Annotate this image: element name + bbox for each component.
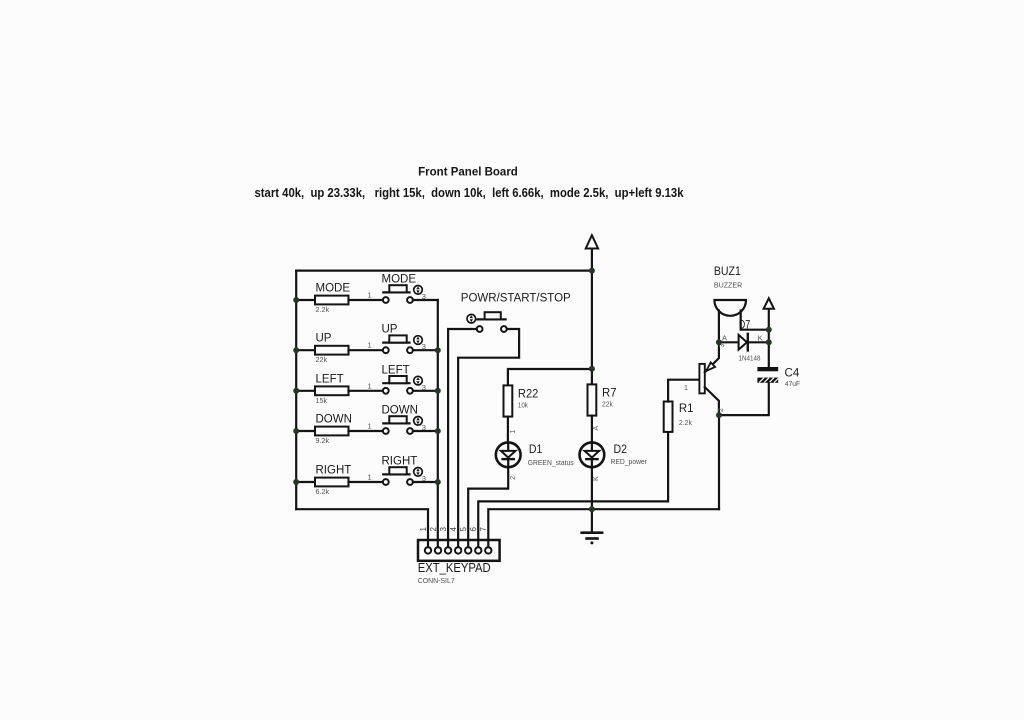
svg-text:2.2k: 2.2k (316, 305, 330, 314)
svg-text:1: 1 (419, 527, 428, 532)
svg-text:1: 1 (510, 430, 517, 434)
svg-text:9.2k: 9.2k (316, 436, 330, 445)
svg-text:R1: R1 (679, 401, 694, 415)
svg-text:A: A (593, 426, 600, 431)
junction node right rail LEFT (435, 388, 441, 394)
wire VCC vertical to R7 (591, 271, 593, 369)
pushbutton S_RIGHT (368, 456, 438, 485)
wire VCC branch to R22 (508, 369, 592, 385)
svg-text:3: 3 (439, 527, 448, 532)
resistor R_LEFT (296, 373, 383, 405)
resistor R_RIGHT (296, 465, 383, 497)
svg-text:D2: D2 (614, 442, 628, 456)
svg-text:R7: R7 (602, 385, 617, 399)
junction node collector/C4 (716, 412, 722, 418)
LED D2 (580, 442, 648, 467)
junction node buzzer/VCC2 (766, 327, 772, 333)
wire right button rail to connector pin 2 (437, 300, 439, 547)
svg-text:1: 1 (368, 291, 372, 300)
svg-text:R22: R22 (518, 386, 539, 400)
svg-text:A: A (722, 334, 727, 343)
resistor R7 (588, 369, 617, 416)
pushbutton S_MODE (368, 274, 438, 303)
resistor R1 (664, 401, 694, 432)
svg-text:GREEN_status: GREEN_status (528, 458, 574, 467)
wire buzzer left lead (718, 311, 720, 343)
svg-text:22k: 22k (602, 400, 613, 409)
svg-text:EXT_KEYPAD: EXT_KEYPAD (418, 561, 491, 575)
svg-text:DOWN: DOWN (382, 405, 418, 417)
svg-text:DOWN: DOWN (316, 414, 352, 426)
wire connector pin 6 to R1 (478, 432, 668, 547)
svg-text:22k: 22k (316, 355, 328, 364)
svg-text:RIGHT: RIGHT (316, 465, 352, 477)
junction node left rail LEFT (293, 388, 299, 394)
wire VCC top bus (296, 270, 592, 272)
pushbutton S_DOWN (368, 405, 438, 434)
svg-text:15k: 15k (316, 396, 328, 405)
pushbutton S_LEFT (368, 364, 438, 393)
wire left rail to connector pin 1 (296, 509, 428, 547)
junction node right rail RIGHT (435, 479, 441, 485)
buzzer BUZ1 (714, 264, 746, 316)
svg-text:D1: D1 (529, 442, 543, 456)
wire D2 to ground node (591, 467, 593, 509)
wire R7 to D2 (591, 416, 593, 443)
svg-text:5: 5 (459, 527, 468, 532)
svg-text:MODE: MODE (316, 283, 351, 295)
junction node R22/R7 (589, 366, 595, 372)
svg-text:1: 1 (368, 473, 372, 482)
svg-text:2: 2 (429, 527, 438, 532)
junction node VCC/top-bus (589, 268, 595, 274)
wire buzzer right lead (741, 311, 769, 330)
junction node left rail MODE (293, 297, 299, 303)
junction node right rail UP (435, 347, 441, 353)
wire left rail (295, 271, 297, 510)
svg-text:6: 6 (469, 527, 478, 532)
junction node GND (589, 506, 595, 512)
svg-text:BUZ1: BUZ1 (714, 264, 741, 278)
svg-text:1: 1 (684, 383, 688, 392)
LED D1 (496, 442, 574, 467)
svg-text:RED_power: RED_power (611, 457, 648, 466)
svg-text:2: 2 (510, 476, 517, 480)
svg-text:10k: 10k (518, 400, 528, 409)
junction node K/C4 (766, 339, 772, 345)
svg-text:1: 1 (368, 381, 372, 390)
svg-text:47uF: 47uF (785, 379, 801, 388)
svg-text:BUZZER: BUZZER (714, 280, 742, 289)
wire VCC2 down to C4 (768, 330, 770, 367)
wire R1 to transistor base (668, 380, 698, 402)
pushbutton POWR/START/STOP (461, 293, 571, 332)
junction node left rail UP (293, 347, 299, 353)
transistor Q1 (PNP) (699, 342, 719, 415)
wire POWR pin1 to connector pin 3 (448, 329, 477, 547)
junction node left rail RIGHT (293, 479, 299, 485)
svg-text:2: 2 (718, 408, 725, 412)
svg-text:1: 1 (368, 341, 372, 350)
resistor R_DOWN (296, 414, 383, 446)
supply symbol VCC (buzzer) (764, 298, 774, 329)
supply symbol VCC (main) (586, 235, 598, 270)
junction node left rail DOWN (293, 428, 299, 434)
wire ground bus pin7 to collector (488, 509, 719, 547)
diode D7 1N4148 (719, 318, 769, 363)
wire R22 to D1 (507, 417, 509, 443)
svg-text:start 40k, up 23.33k, right: start 40k, up 23.33k, right 15k, down 10… (255, 186, 685, 200)
svg-text:1: 1 (368, 422, 372, 431)
svg-text:K: K (593, 476, 600, 481)
svg-text:UP: UP (316, 333, 332, 345)
ground symbol GND (582, 509, 602, 544)
svg-text:K: K (758, 334, 763, 343)
junction node right rail DOWN (435, 428, 441, 434)
svg-text:LEFT: LEFT (382, 364, 410, 376)
svg-text:C4: C4 (785, 365, 800, 379)
svg-text:RIGHT: RIGHT (382, 456, 418, 468)
wire POWR pin3 to connector pin 4 (458, 329, 519, 547)
junction node A buzzer/emitter (716, 339, 722, 345)
svg-text:MODE: MODE (382, 274, 417, 286)
wire D1 to connector pin 5 (468, 467, 508, 547)
resistor R_UP (296, 333, 383, 365)
svg-text:7: 7 (479, 527, 488, 532)
connector EXT_KEYPAD CONN-SIL7 (418, 540, 500, 585)
svg-text:2.2k: 2.2k (679, 418, 692, 427)
svg-text:POWR/START/STOP: POWR/START/STOP (461, 293, 571, 305)
wire C4 to collector node (719, 383, 769, 415)
svg-text:CONN-SIL7: CONN-SIL7 (418, 576, 455, 585)
svg-text:LEFT: LEFT (316, 373, 344, 385)
svg-text:4: 4 (449, 527, 458, 532)
resistor R22 (504, 385, 539, 416)
svg-text:1N4148: 1N4148 (739, 354, 761, 363)
wire collector node to ground bus (718, 415, 720, 509)
capacitor C4 47uF (757, 365, 800, 388)
svg-text:D7: D7 (739, 318, 751, 332)
resistor R_MODE (296, 283, 383, 315)
pushbutton S_UP (368, 324, 438, 353)
svg-text:6.2k: 6.2k (316, 487, 330, 496)
svg-text:UP: UP (382, 324, 398, 336)
svg-text:Front Panel Board: Front Panel Board (418, 166, 518, 178)
